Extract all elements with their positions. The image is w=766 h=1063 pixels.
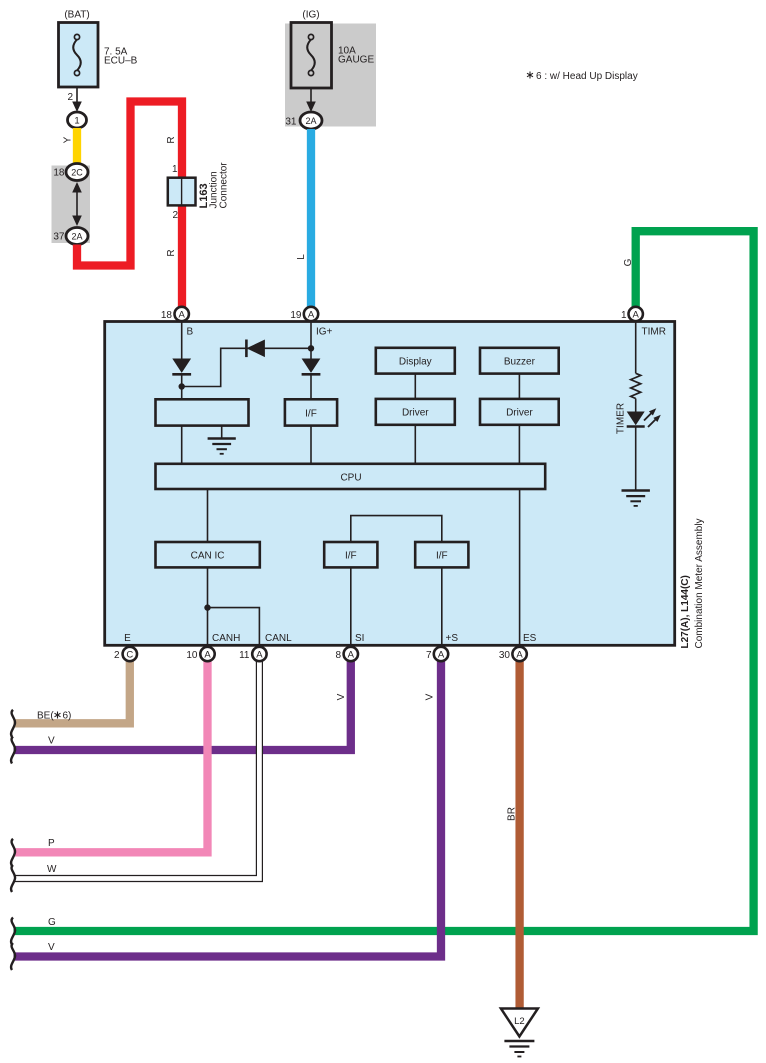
svg-text:V: V [48,942,55,953]
svg-text:IG+: IG+ [316,327,333,338]
svg-text:10: 10 [186,650,198,661]
svg-text:37: 37 [53,232,65,243]
svg-text:+S: +S [446,633,459,644]
wire BR (brown) from pin ES [515,661,523,1009]
svg-text:ECU–B: ECU–B [104,56,138,67]
connector block (gray) [52,166,91,244]
svg-text:L27(A), L144(C): L27(A), L144(C) [680,575,691,648]
I/F box U1 [285,399,337,425]
pin 7 terminal (+S) [434,647,448,661]
break symbol P [11,839,15,866]
svg-text:BR: BR [507,807,518,821]
diode D3 [302,359,321,373]
Driver box (buzzer) [480,399,559,425]
svg-text:2: 2 [114,650,120,661]
svg-text:I/F: I/F [305,409,317,420]
junction node IG+ [308,345,314,351]
svg-text:G: G [48,917,56,928]
terminal 2A [66,228,88,245]
wire Y (yellow) [73,128,81,165]
wire branch to CANL [208,608,260,647]
svg-text:A: A [516,650,523,661]
wire D3 to I/F [310,374,312,399]
svg-text:CAN IC: CAN IC [191,551,225,562]
terminal 2C [66,164,88,181]
wire fuse to terminal 2A with arrow [310,88,312,103]
svg-text:6): 6) [63,711,72,722]
svg-text:11: 11 [239,650,250,661]
break symbol G [11,918,15,945]
svg-text:L: L [296,254,307,260]
svg-text:18: 18 [161,310,173,321]
Buzzer box [480,348,559,374]
wire resistor to LED [635,399,637,412]
wire TIMR internal [635,322,637,373]
wire BE (tan) from pin E [14,661,130,723]
svg-text:SI: SI [355,633,364,644]
svg-text:2A: 2A [71,232,82,242]
fuse block (IG) gray box [285,24,376,127]
svg-text:R: R [166,136,177,143]
svg-text:(BAT): (BAT) [64,10,89,21]
wire LED to ground [635,427,637,491]
svg-text:A: A [256,650,263,661]
wire CAN IC to CANH [207,567,209,646]
ground L2 bars [504,1041,534,1057]
wire Driver to CPU [414,425,416,464]
svg-text:2: 2 [67,92,73,103]
wire I/F U2 to pin SI [350,567,352,646]
wire IG+ internal [310,322,312,359]
svg-text:1: 1 [74,116,79,127]
wire B internal [181,322,183,359]
svg-text:18: 18 [53,168,65,179]
pin 18 terminal [175,307,189,321]
fuse F ECU-B box [59,23,99,88]
combination meter assembly box [105,322,675,646]
svg-text:Buzzer: Buzzer [504,356,536,367]
svg-text:TIMER: TIMER [616,403,627,434]
break symbol V [11,737,15,764]
svg-text:I/F: I/F [436,551,448,562]
label BE(*6) [37,711,71,722]
diode D2 [246,340,265,358]
double arrow 2C to 2A [76,184,78,224]
svg-text:ES: ES [523,633,537,644]
svg-text:Connector: Connector [219,162,230,209]
wire I/F to CPU [310,426,312,464]
svg-text:B: B [187,327,194,338]
junction node CANH [204,604,210,610]
fuse F GAUGE symbol [307,40,315,71]
svg-text:A: A [633,310,640,321]
pin 19 terminal [304,307,318,321]
wire CPU to pin ES [519,489,521,647]
svg-text:19: 19 [290,310,302,321]
CPU box [156,464,546,489]
svg-text:2A: 2A [305,116,316,126]
svg-text:1: 1 [621,310,627,321]
wire R (red) from 2A to pin 18 [77,102,182,308]
svg-text:P: P [48,838,55,849]
wire CPU to CAN IC [207,489,209,542]
svg-text:1: 1 [172,164,178,175]
note w/ Head Up Display [527,71,638,82]
svg-text:CPU: CPU [340,473,361,484]
pin 10 terminal (CANH) [200,647,214,661]
svg-text:TIMR: TIMR [642,327,666,338]
svg-text:6 : w/ Head Up Display: 6 : w/ Head Up Display [536,71,638,82]
svg-text:V: V [425,693,436,700]
junction node B [179,383,185,389]
I/F box U2 [324,542,377,567]
svg-text:L2: L2 [514,1016,525,1027]
svg-text:Combination Meter Assembly: Combination Meter Assembly [694,518,705,648]
svg-text:A: A [438,650,445,661]
svg-text:W: W [47,864,57,875]
wire node B to diode D2 [182,348,311,386]
svg-text:2: 2 [172,210,178,221]
svg-text:Y: Y [63,136,74,143]
diode D1 [172,359,191,373]
svg-text:A: A [348,650,355,661]
fuse F ECU-B symbol [73,40,81,71]
svg-text:V: V [48,736,55,747]
break symbol W [11,865,15,892]
wire G (green) from pin 1 around right side to bottom [14,231,754,931]
svg-text:C: C [126,650,133,661]
svg-text:Driver: Driver [402,407,429,418]
LED timer [627,412,645,426]
pin 2 terminal (E) [123,647,137,661]
wire Display to Driver [414,374,416,399]
svg-text:Driver: Driver [506,407,533,418]
I/F box U3 [415,542,468,567]
terminal 2A (31) [300,112,322,129]
resistor R timer [631,373,641,398]
wire fuse to terminal 1 with arrow [76,87,78,103]
wire Buzzer to Driver [518,374,520,399]
wire box to CPU [181,426,183,464]
svg-text:CANH: CANH [212,633,240,644]
svg-text:CANL: CANL [265,633,292,644]
power supply box (unlabeled) [156,399,249,425]
pin 30 terminal (ES) [512,647,526,661]
svg-text:R: R [166,249,177,256]
break symbol V2 [11,943,15,970]
wire V (violet) from pin SI [14,661,351,750]
wire I/F U3 to pin +S [441,567,443,646]
junction connector L163 [168,178,196,206]
svg-text:E: E [124,633,131,644]
svg-text:Display: Display [399,356,432,367]
pin 1 terminal [629,307,643,321]
Display box [376,348,455,374]
terminal 1 [68,112,87,128]
wire P (pink) from pin CANH [14,661,208,852]
svg-text:A: A [308,310,315,321]
svg-text:G: G [623,258,634,266]
wire V (violet) from pin +S [14,661,442,957]
svg-text:BE(: BE( [37,711,54,722]
ground L2 triangle [501,1009,538,1037]
svg-text:I/F: I/F [345,551,357,562]
wire W (white) from pin CANL [14,661,260,879]
svg-text:31: 31 [285,117,297,128]
pin 8 terminal (SI) [344,647,358,661]
svg-text:(IG): (IG) [302,10,319,21]
wire bridge between I/F tops [351,516,442,542]
break symbol BE [11,710,15,737]
wire Driver to CPU [518,425,520,464]
wire L (blue) [307,129,315,308]
pin 11 terminal (CANL) [252,647,266,661]
ground timer [622,491,650,506]
svg-text:GAUGE: GAUGE [338,55,374,66]
ground internal [208,439,236,454]
Driver box (display) [376,399,455,425]
svg-text:2C: 2C [71,168,83,178]
svg-text:V: V [336,693,347,700]
svg-text:30: 30 [499,650,511,661]
fuse F GAUGE box [291,23,332,89]
ground internal stub [221,426,223,439]
svg-text:8: 8 [335,650,341,661]
wire D1 to node [181,374,183,399]
LED arrows [644,408,661,427]
svg-text:A: A [204,650,211,661]
CAN IC box [156,542,260,567]
svg-text:A: A [179,310,186,321]
svg-text:7: 7 [426,650,432,661]
